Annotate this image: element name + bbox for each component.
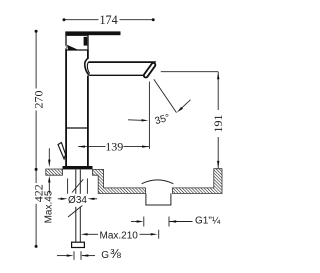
faucet body column left edge — [65, 50, 67, 166]
dimension 174 line — [64, 19, 153, 21]
G1 1/4 left arrowhead — [137, 220, 144, 222]
drain tail box — [146, 194, 171, 206]
svg-text:174: 174 — [99, 13, 117, 27]
deck left hatched band — [46, 169, 63, 175]
faucet base plate — [63, 166, 93, 169]
faucet body column right edge upper — [87, 50, 89, 59]
G 3/8 right arrowhead — [82, 254, 89, 256]
faucet column joint line — [66, 127, 88, 129]
35 deg leader arrowhead — [177, 107, 183, 113]
lever tail wedge — [67, 45, 79, 51]
dimension G 3/8 — [57, 251, 95, 260]
pipe break slash upper — [72, 179, 83, 192]
leader tag on column left side — [58, 143, 66, 159]
dimension O34 extension lines — [58, 178, 97, 198]
svg-text:191: 191 — [211, 115, 225, 133]
dimension 139 — [78, 146, 149, 148]
drain dome arc — [142, 180, 174, 184]
dimension 191 bottom arrowhead — [217, 161, 219, 168]
svg-text:139: 139 — [105, 140, 123, 154]
Max.45 down arrowhead — [48, 160, 50, 168]
dimension 139 left arrowhead — [78, 145, 85, 147]
deck right hatched band with step — [93, 169, 146, 193]
cartridge black detail — [84, 37, 88, 46]
spout root inner curve — [87, 62, 89, 74]
deck lower band right of drain with upturn — [172, 169, 222, 194]
Max.45 up arrowhead — [48, 176, 50, 183]
dimension 174 end dots — [63, 18, 66, 21]
spout root outer curve — [85, 58, 89, 75]
Max.210 right arrowhead — [151, 233, 158, 235]
Max.210 left arrowhead — [81, 233, 88, 235]
dimension Max.45 — [48, 148, 50, 193]
O34 left arrowhead — [61, 198, 68, 200]
spout bottom line — [89, 74, 146, 76]
svg-text:Max.210: Max.210 — [100, 230, 139, 241]
aerator oval at spout tip — [146, 65, 154, 76]
faucet cartridge box — [66, 35, 88, 50]
svg-text:G1"¼: G1"¼ — [195, 215, 221, 227]
svg-text:Max.45: Max.45 — [43, 190, 54, 223]
pipe break slash lower — [68, 206, 82, 218]
mounting nut — [72, 242, 85, 247]
spout top line — [89, 62, 155, 75]
dimension 191 extension line from spout — [161, 71, 218, 73]
supply pipe below deck — [76, 170, 81, 243]
dimension G1 1/4 — [131, 217, 193, 227]
dimension 139 right arrowhead — [142, 145, 149, 147]
svg-text:270: 270 — [32, 91, 46, 109]
35 deg leader arrow left — [128, 119, 141, 122]
faucet lever handle bar — [65, 31, 120, 35]
dimension 270/422 vertical line — [35, 31, 37, 246]
faucet body column right edge lower — [87, 76, 89, 167]
35 deg left arrowhead — [141, 119, 148, 121]
vertical reference line at spout tip — [148, 82, 150, 149]
dimension Max.210 — [87, 230, 159, 239]
G 3/8 left arrowhead — [67, 254, 74, 256]
G1 1/4 right arrowhead — [169, 220, 176, 222]
35 deg slanted line — [154, 79, 177, 112]
35 deg leader arrow right — [181, 100, 191, 109]
dimension dots 270/422 — [35, 30, 38, 33]
dimension 191 top arrowhead — [217, 72, 219, 79]
O34 right arrowhead — [88, 198, 95, 200]
svg-text:Ø34: Ø34 — [68, 195, 87, 206]
dimension 191 vertical line — [217, 72, 219, 169]
